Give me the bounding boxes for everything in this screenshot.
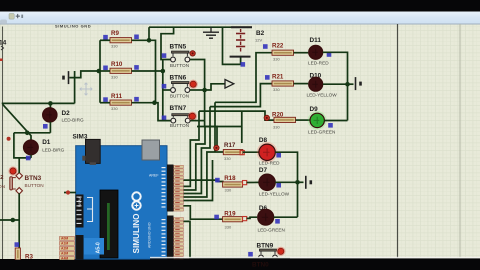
- pin end D7 left: [243, 181, 247, 185]
- battery cell GND top-right: [356, 77, 361, 90]
- wire y132 horizontal: [14, 132, 51, 134]
- led D11: [309, 45, 323, 59]
- handle R3 top: [15, 242, 20, 247]
- arduino left pin header analog: [76, 235, 84, 260]
- handle D7 right: [276, 183, 281, 188]
- wire feeder R22: [215, 53, 272, 103]
- svg-text:BTN7: BTN7: [170, 105, 187, 112]
- wire feeder R20: [199, 111, 274, 120]
- wire pin to R19: [184, 206, 224, 219]
- handle D8 right: [276, 153, 281, 158]
- wire pin riser 5: [184, 160, 213, 201]
- wire riser 4b: [214, 102, 216, 152]
- junction D2 top: [48, 101, 53, 106]
- svg-text:BUTTON: BUTTON: [170, 63, 189, 68]
- handle R11 left: [103, 97, 108, 102]
- svg-text:SIMULINO GND: SIMULINO GND: [55, 23, 91, 28]
- wire branch down x74.6: [74, 71, 76, 103]
- wire pin riser 3: [184, 107, 211, 194]
- svg-text:D2: D2: [62, 110, 71, 117]
- indicator BTN5: [190, 51, 195, 56]
- arduino silk bracket: [87, 198, 93, 222]
- arduino white pin numbers column: [162, 167, 166, 256]
- junction R9 right: [147, 38, 152, 43]
- wire R10 right lead: [132, 70, 163, 72]
- bottom letterbox bar: [0, 260, 480, 270]
- arduino right pin label boxes bottom: [174, 218, 184, 260]
- handle R11 right: [134, 97, 139, 102]
- resistor R22: [272, 50, 294, 55]
- svg-text:AREF: AREF: [149, 174, 159, 178]
- wire bottom long: [190, 258, 290, 260]
- svg-text:BUTTON: BUTTON: [25, 183, 44, 188]
- arduino ic chip: [100, 190, 118, 258]
- svg-text:BTN5: BTN5: [170, 44, 187, 51]
- arduino right pin header top: [167, 165, 174, 212]
- svg-text:A0M: A0M: [61, 237, 68, 241]
- wire top horizontal y103: [2, 102, 75, 104]
- push button BTN3: [10, 173, 23, 195]
- handle BTN5 left: [162, 53, 167, 58]
- left stub wire to board: [64, 192, 76, 194]
- svg-text:BTN0: BTN0: [252, 262, 269, 269]
- svg-text:R22: R22: [272, 42, 284, 49]
- svg-text:A1M: A1M: [61, 242, 68, 246]
- wire junction to arrow terminal: [205, 84, 225, 90]
- junction diagonal: [25, 131, 30, 136]
- indicator BTN7: [188, 112, 197, 121]
- wire BTN3 bottom: [18, 193, 20, 248]
- wire cell to junction: [69, 71, 99, 78]
- svg-text:BTN9: BTN9: [257, 242, 274, 249]
- toolbar strip: [0, 12, 480, 25]
- handle R18 left: [215, 178, 220, 183]
- svg-text:ON: ON: [0, 184, 5, 189]
- left edge red tick: [0, 59, 3, 62]
- svg-text:330: 330: [111, 44, 118, 49]
- sheet divider line x=398: [397, 24, 399, 258]
- indicator BTN3: [8, 166, 17, 175]
- wire R9 right lead: [132, 39, 150, 41]
- toolbar icon 1: [0, 20, 7, 25]
- wire D1 bottom route: [14, 133, 31, 158]
- svg-text:330: 330: [111, 74, 118, 79]
- resistor R19: [223, 217, 243, 222]
- handle R10 left: [103, 66, 108, 71]
- led D9: [308, 111, 327, 130]
- resistor R3: [15, 248, 20, 260]
- wire BTN6 left: [163, 89, 171, 91]
- ground symbol G-rail: [203, 27, 219, 38]
- toolbar bottom edge: [0, 23, 480, 25]
- push button BTN7: [171, 114, 190, 123]
- resistor R10: [110, 68, 132, 73]
- svg-text:R21: R21: [272, 73, 284, 80]
- junction btn bus R10: [161, 69, 166, 74]
- svg-text:LED-GREEN: LED-GREEN: [308, 129, 335, 134]
- resistor R9: [110, 38, 132, 43]
- svg-text:WWW: WWW: [78, 197, 82, 207]
- wire D10 right: [323, 83, 348, 85]
- arduino right pin header bottom: [167, 216, 174, 260]
- battery cell GND left: [64, 71, 69, 84]
- svg-text:A5-0: A5-0: [96, 242, 102, 253]
- svg-text:A2M: A2M: [61, 247, 68, 251]
- handle battery bottom: [241, 62, 246, 67]
- handle D9 right: [328, 123, 333, 128]
- wire pin to R18: [184, 180, 224, 181]
- svg-text:B2: B2: [256, 30, 265, 37]
- svg-text:330: 330: [224, 156, 231, 161]
- wire R21 right lead: [294, 83, 309, 85]
- led D7: [259, 174, 275, 190]
- toolbar icon 2: [9, 14, 14, 20]
- wire BTN3 top: [18, 158, 20, 173]
- bottom white line right: [150, 257, 480, 259]
- wire R11 right lead: [132, 102, 155, 104]
- wire junction to rail: [148, 27, 150, 40]
- svg-text:LED-BIRG: LED-BIRG: [62, 117, 84, 122]
- svg-text:R11: R11: [111, 93, 123, 100]
- junction BTN6 right: [202, 88, 207, 93]
- wire D2 top lead: [49, 103, 51, 108]
- led D8: [257, 142, 278, 163]
- resistor R20: [274, 117, 296, 122]
- junction R11 right: [152, 100, 157, 105]
- wire x155 vertical: [149, 40, 156, 102]
- wire R17 to D8: [243, 151, 259, 153]
- arduino left analog label boxes: [60, 237, 75, 261]
- wire BTN6 right: [190, 89, 205, 91]
- wire vertical bus x100: [99, 40, 101, 102]
- pin end red dot left: [7, 137, 11, 141]
- handle R22 left: [263, 44, 268, 49]
- push button BTN9: [259, 249, 278, 260]
- wire battery bottom loop: [223, 27, 241, 64]
- svg-text:LED-YELLOW: LED-YELLOW: [259, 191, 290, 196]
- wire BTN7 right: [191, 120, 205, 122]
- push button BTN6: [171, 82, 190, 93]
- wire y131 horizontal: [197, 126, 242, 128]
- svg-text:R18: R18: [224, 175, 236, 182]
- led D10: [309, 77, 323, 91]
- svg-text:330: 330: [273, 87, 280, 92]
- arduino power connector gray: [142, 140, 160, 160]
- svg-text:BTN3: BTN3: [25, 175, 42, 182]
- wire D9 right: [324, 120, 347, 122]
- svg-text:330: 330: [225, 188, 232, 193]
- svg-text:330: 330: [225, 225, 232, 230]
- battery cell GND bottom: [306, 176, 311, 189]
- svg-text:R17: R17: [224, 142, 236, 149]
- wire diagonal to D1: [3, 104, 31, 140]
- led D1: [24, 140, 39, 155]
- wire pin riser 4: [184, 152, 224, 197]
- wire BTN5 right: [190, 60, 205, 121]
- led D6: [258, 209, 274, 225]
- svg-text:R3: R3: [25, 254, 33, 261]
- handle D1 bottom: [26, 156, 31, 161]
- indicator BTN9: [276, 247, 285, 256]
- wire R20 right lead: [296, 119, 310, 121]
- handle R21 left: [265, 75, 270, 80]
- arduino logo: [132, 192, 140, 209]
- wire R18 to D7: [247, 181, 259, 183]
- handle BTN7 left: [162, 116, 167, 121]
- svg-text:LED-GREEN: LED-GREEN: [258, 227, 285, 232]
- toolbar icon 3 with plus: [15, 14, 23, 19]
- wire bus to cell top: [348, 83, 354, 85]
- wire pin fan bottom: [184, 221, 191, 258]
- pin end R20 left: [264, 115, 269, 120]
- wire pin riser 1: [184, 111, 200, 186]
- svg-text:LED-RED: LED-RED: [308, 61, 329, 66]
- handle R9 right: [134, 35, 139, 40]
- handle D6 right: [275, 219, 280, 224]
- pin end R17 left: [214, 145, 219, 150]
- wire bus to R17: [205, 121, 217, 147]
- sheet faint line x=460: [459, 24, 461, 258]
- wire gnd rail y27: [149, 26, 252, 28]
- svg-text:BUTTON: BUTTON: [170, 123, 189, 128]
- wire D7 right: [275, 181, 297, 183]
- wire R11 left lead: [100, 102, 110, 104]
- wire R10 left lead: [99, 70, 110, 72]
- arduino left pin header power: [76, 195, 84, 228]
- handle D11 right: [327, 52, 332, 57]
- top letterbox bar: [0, 0, 480, 12]
- left edge cut glyph: [1, 46, 4, 50]
- led D2: [43, 108, 57, 122]
- wire R22 right lead: [294, 52, 309, 54]
- wire D8 right: [275, 152, 297, 217]
- wire BTN7 left: [155, 103, 171, 121]
- svg-text:R10: R10: [111, 61, 123, 68]
- svg-text:330: 330: [273, 124, 280, 129]
- svg-text:D11: D11: [310, 37, 322, 44]
- handle R19 left: [214, 215, 219, 220]
- pin end D6 left: [243, 217, 247, 221]
- terminal arrow: [225, 80, 234, 89]
- svg-text:BTN6: BTN6: [170, 75, 187, 82]
- svg-text:LED-YELLOW: LED-YELLOW: [307, 93, 338, 98]
- sheet left border line: [2, 27, 4, 260]
- svg-text:LED-RED: LED-RED: [259, 161, 280, 166]
- handle D2 bottom: [43, 124, 48, 129]
- svg-text:ARDUINO UNO: ARDUINO UNO: [148, 222, 152, 248]
- resistor R21: [272, 81, 294, 86]
- svg-text:LED-BIRG: LED-BIRG: [42, 148, 64, 153]
- junction D7 bus: [295, 180, 300, 185]
- wire y220 horizontal: [0, 219, 19, 221]
- handle BTN9 left: [248, 252, 253, 257]
- arduino right pin label boxes: [174, 165, 184, 211]
- arduino analog-in block: [84, 238, 104, 255]
- resistor R11: [110, 100, 132, 105]
- svg-text:SIMULINO: SIMULINO: [132, 213, 141, 254]
- battery B2: [230, 27, 252, 56]
- push button BTN5: [171, 51, 190, 62]
- svg-text:12V: 12V: [255, 38, 262, 43]
- pin end D8 left: [240, 151, 244, 155]
- junction bus-R10: [97, 69, 102, 74]
- wire R9 left lead: [100, 39, 110, 41]
- handle BTN6 left: [162, 84, 167, 89]
- svg-text:BUTTON: BUTTON: [170, 94, 189, 99]
- svg-text:D1: D1: [42, 139, 51, 146]
- indicator BTN6: [189, 80, 198, 89]
- wire rail step to BTN5: [161, 27, 174, 59]
- wire feeder stub x241: [241, 111, 243, 143]
- svg-text:12: 12: [0, 175, 3, 181]
- handle R10 right: [134, 65, 139, 70]
- arduino board SIM3: [76, 146, 167, 260]
- wire D2 bottom lead: [49, 122, 51, 133]
- resistor R18: [223, 182, 243, 187]
- left stub red dot: [66, 190, 70, 194]
- arduino usb connector: [82, 139, 100, 165]
- handle R9 left: [103, 35, 108, 40]
- origin cross marker: [80, 83, 92, 95]
- svg-text:R9: R9: [111, 30, 119, 37]
- svg-text:330: 330: [273, 56, 280, 61]
- wire bus x162 BTN left: [162, 60, 164, 121]
- junction y220: [11, 218, 16, 223]
- junction D10 bus: [345, 82, 350, 87]
- wire D1 bottom lead: [30, 155, 32, 158]
- wire D11 right: [323, 52, 348, 120]
- wire bus to cell bottom: [298, 181, 304, 183]
- wire R19 to D6: [247, 217, 258, 218]
- svg-text:A3M: A3M: [61, 252, 68, 256]
- svg-text:14: 14: [0, 40, 7, 47]
- wire feeder R21: [210, 84, 272, 107]
- svg-text:D7: D7: [259, 167, 268, 174]
- resistor R17: [223, 150, 243, 155]
- wire D6 right: [274, 216, 298, 218]
- wire pin riser 2: [184, 127, 206, 191]
- svg-text:330: 330: [111, 106, 118, 111]
